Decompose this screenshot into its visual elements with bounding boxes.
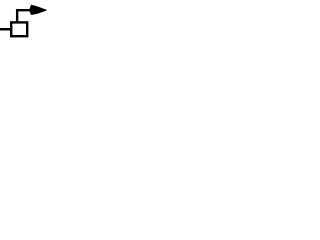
arrowhead [29, 5, 46, 15]
wire [0, 28, 11, 31]
wire [17, 10, 31, 21]
component box U1 [11, 22, 27, 36]
